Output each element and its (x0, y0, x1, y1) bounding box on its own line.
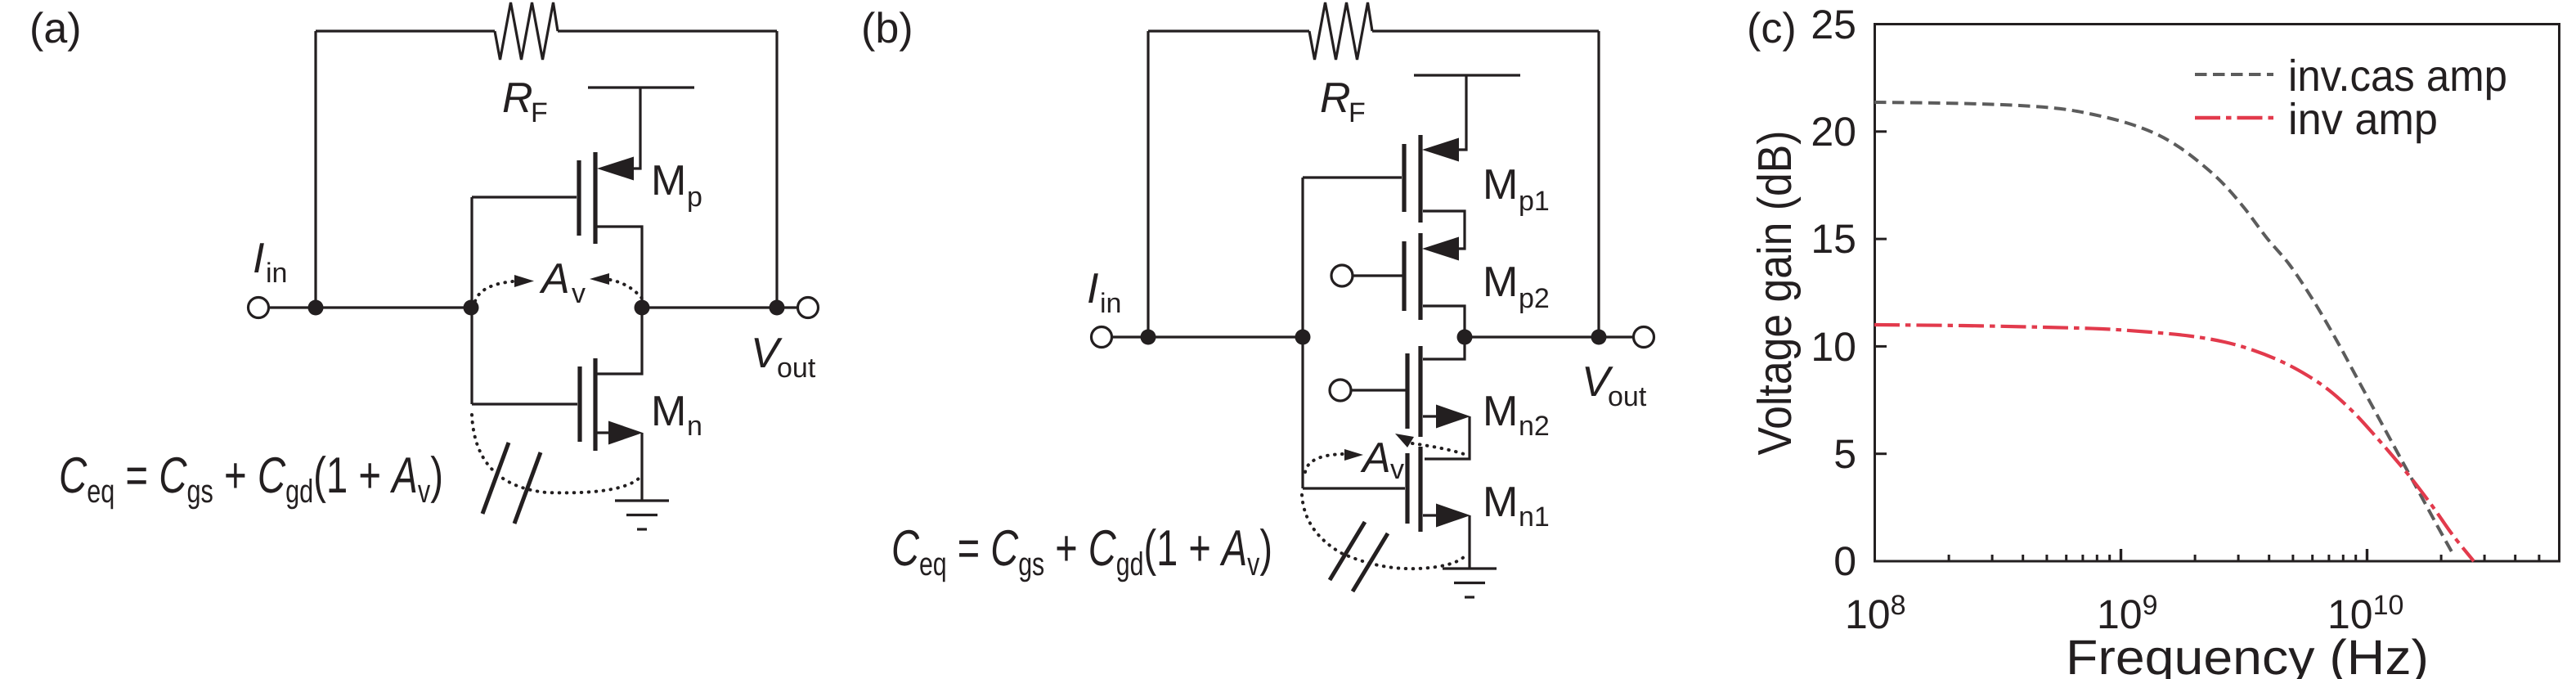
svg-text:p1: p1 (1519, 186, 1550, 217)
svg-text:R: R (1320, 74, 1351, 122)
y axis major ticks (c) (1875, 132, 1887, 454)
Mp2 gate terminal circle (b) (1331, 265, 1353, 286)
wire feedback top left segment (a) (316, 29, 495, 32)
wire feedback top right segment (a) (558, 29, 777, 32)
svg-text:F: F (531, 97, 548, 128)
wire feedback right vertical (b) (1597, 31, 1600, 337)
wire input row (b) (1112, 335, 1303, 338)
wire Mp2 gate terminal (b) (1353, 274, 1402, 277)
wire Mp1 source (b) (1457, 75, 1466, 150)
ground (b) (1443, 569, 1497, 597)
svg-text:108: 108 (1845, 590, 1906, 637)
gain arc left dotted (a) (475, 281, 513, 301)
wire Mn1 gate (b) (1303, 487, 1405, 489)
wire Mn2 source stub (b) (1423, 415, 1438, 417)
Ceq slash 1 (b) (1330, 522, 1365, 580)
transistor Mn channel bar (a) (593, 358, 597, 451)
node input-feedback junction (a) (308, 300, 324, 316)
svg-text:Ceq = Cgs + Cgd(1 + Av): Ceq = Cgs + Cgd(1 + Av) (59, 447, 443, 510)
wire gate bus vertical (b) (1301, 178, 1304, 488)
ground (a) (615, 501, 669, 529)
gain arc left arrowhead (a) (514, 275, 534, 287)
transistor Mn1 channel bar (b) (1418, 447, 1422, 532)
svg-text:Ceq = Cgs + Cgd(1 + Av): Ceq = Cgs + Cgd(1 + Av) (891, 520, 1272, 582)
wire feedback right vertical (a) (775, 31, 778, 308)
svg-text:in: in (266, 258, 287, 289)
svg-text:I: I (253, 235, 264, 282)
Ceq slash 2 (a) (514, 452, 541, 524)
svg-text:R: R (502, 74, 533, 122)
svg-text:inv.cas amp: inv.cas amp (2288, 52, 2507, 101)
legend line inv amp (c) (2195, 116, 2273, 120)
transistor Mp channel bar (a) (593, 152, 597, 244)
svg-text:in: in (1100, 288, 1121, 319)
node input-feedback junction (b) (1141, 330, 1156, 345)
y tick labels (c) (1811, 2, 1856, 584)
x axis major ticks (c) (2121, 549, 2367, 561)
transistor Mn2 source arrow (b) (1436, 405, 1470, 429)
node output-drain junction (b) (1457, 330, 1473, 345)
wire Mp1 gate (b) (1303, 176, 1402, 178)
input terminal circle (b) (1092, 327, 1112, 348)
wire Mn1 source down (b) (1468, 515, 1470, 569)
wire Mp2 drain (b) (1423, 306, 1465, 337)
transistor Mp source arrow (a) (597, 157, 634, 181)
output terminal circle (b) (1634, 327, 1654, 348)
node output-feedback junction (b) (1591, 330, 1607, 345)
gain arc right dotted (b) (1412, 443, 1466, 455)
svg-text:M: M (651, 388, 686, 435)
Ceq arc dotted (a) (472, 415, 639, 492)
wire Mn1 source stub (b) (1423, 514, 1438, 516)
transistor Mp1 source arrow (b) (1422, 138, 1459, 162)
transistor Mp gate bar (a) (577, 160, 581, 236)
svg-text:p: p (687, 182, 702, 213)
node output-drain junction (a) (635, 300, 650, 316)
svg-text:0: 0 (1833, 538, 1856, 584)
transistor Mp1 channel bar (b) (1418, 135, 1422, 223)
resistor RF (b) (1309, 2, 1372, 60)
svg-text:(a): (a) (29, 5, 82, 52)
svg-text:n1: n1 (1519, 501, 1550, 533)
wire output row (a) (642, 306, 797, 308)
svg-text:(c): (c) (1747, 5, 1797, 52)
wire Mn2 drain (b) (1423, 337, 1465, 359)
svg-text:M: M (1483, 259, 1518, 306)
x axis minor ticks (c) (1949, 555, 2539, 561)
svg-text:15: 15 (1811, 216, 1856, 262)
wire gate bus vertical (a) (470, 197, 473, 404)
gain arc right arrowhead (a) (590, 273, 609, 285)
node output-feedback junction (a) (770, 300, 785, 316)
wire input row (a) (269, 306, 471, 308)
wire Mp source (a) (631, 88, 640, 169)
plot frame (c) (1875, 25, 2560, 562)
svg-text:Voltage gain (dB): Voltage gain (dB) (1748, 131, 1802, 456)
wire Mn source stub (a) (597, 431, 612, 434)
resistor RF (a) (495, 2, 558, 60)
wire Mn drain (a) (597, 308, 642, 374)
transistor Mn gate bar (a) (577, 366, 581, 442)
wire feedback left vertical (a) (314, 31, 316, 308)
svg-text:F: F (1349, 97, 1366, 128)
transistor Mn1 source arrow (b) (1436, 504, 1470, 528)
node input-gate junction (a) (464, 300, 479, 316)
svg-text:p2: p2 (1519, 283, 1550, 314)
transistor Mp2 source arrow (b) (1422, 237, 1459, 261)
VDD rail (b) (1414, 74, 1520, 76)
transistor Mp1 gate bar (b) (1402, 144, 1406, 212)
svg-text:M: M (1483, 479, 1518, 526)
svg-text:Frequency (Hz): Frequency (Hz) (2066, 630, 2429, 679)
Mn2 gate terminal circle (b) (1330, 380, 1351, 401)
transistor Mn2 gate bar (b) (1405, 353, 1409, 429)
wire Mn2 gate terminal (b) (1351, 389, 1406, 391)
svg-text:5: 5 (1833, 431, 1856, 477)
gain arc left arrowhead (b) (1344, 449, 1363, 461)
gain arc right arrowhead (b) (1395, 434, 1414, 447)
svg-text:M: M (1483, 161, 1518, 209)
svg-text:25: 25 (1811, 2, 1856, 47)
output terminal circle (a) (798, 298, 819, 318)
svg-text:M: M (1483, 388, 1518, 435)
svg-text:I: I (1087, 265, 1098, 313)
Ceq slash 2 (b) (1353, 533, 1388, 591)
wire Mn gate (a) (472, 402, 577, 405)
legend line inv.cas amp (c) (2195, 73, 2273, 76)
transistor Mp2 channel bar (b) (1418, 233, 1422, 320)
svg-text:out: out (777, 353, 816, 384)
svg-text:n2: n2 (1519, 411, 1550, 442)
svg-text:(b): (b) (861, 5, 913, 52)
svg-text:v: v (1390, 454, 1404, 485)
wire feedback top left segment (b) (1148, 29, 1309, 32)
VDD rail (a) (588, 86, 694, 88)
gain arc right dotted (a) (610, 280, 643, 299)
svg-text:out: out (1608, 381, 1647, 412)
transistor Mn1 gate bar (b) (1405, 453, 1409, 524)
wire Mn2 source to Mn1 drain (b) (1425, 416, 1470, 459)
svg-text:inv amp: inv amp (2288, 95, 2438, 144)
svg-text:n: n (687, 411, 702, 442)
wire Mp gate (a) (472, 196, 577, 198)
svg-text:v: v (572, 278, 586, 309)
svg-text:10: 10 (1811, 324, 1856, 370)
svg-text:A: A (1360, 434, 1391, 482)
wire output row (b) (1465, 335, 1633, 338)
Ceq slash 1 (a) (482, 443, 509, 514)
wire feedback top right segment (b) (1372, 29, 1599, 32)
transistor Mp2 gate bar (b) (1402, 241, 1406, 311)
wire Mp drain (a) (597, 227, 642, 308)
curve inv.cas amp (c) (1874, 102, 2453, 555)
svg-text:20: 20 (1811, 109, 1856, 155)
wire feedback left vertical (b) (1147, 31, 1149, 337)
svg-text:A: A (539, 255, 570, 303)
node input-gate junction (b) (1295, 330, 1311, 345)
wire Mn source down (a) (640, 433, 643, 501)
input terminal circle (a) (249, 298, 269, 318)
Ceq arc dotted (b) (1302, 495, 1467, 569)
transistor Mn2 channel bar (b) (1418, 346, 1422, 437)
transistor Mn source arrow (a) (608, 421, 643, 445)
gain arc left dotted (b) (1305, 454, 1344, 472)
curve inv amp (c) (1874, 325, 2474, 561)
svg-text:M: M (651, 157, 686, 205)
wire Mp1 drain to Mp2 source (b) (1423, 211, 1465, 249)
